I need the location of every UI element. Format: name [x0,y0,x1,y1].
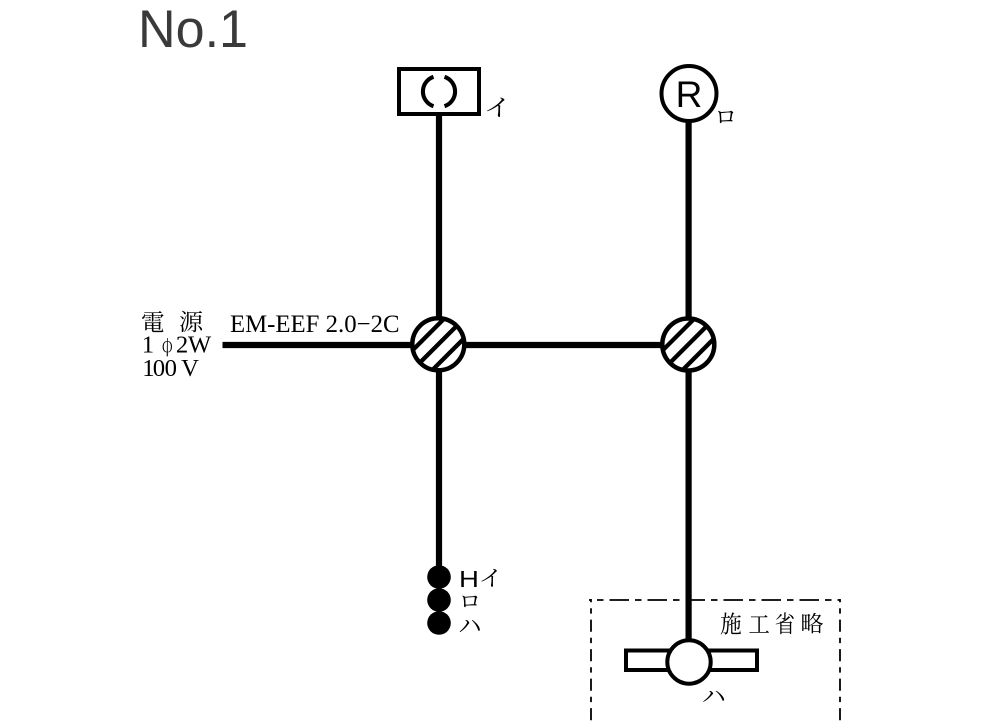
power source label 電源 [142,311,202,332]
label イ for ceiling light [487,98,504,117]
junction box J2 [650,306,726,382]
power source label 1φ2W [142,332,212,359]
switch H イ (position-lamp switch) [427,565,451,589]
lamp R (round lampholder) ロ [662,66,717,121]
wire: junction box J1 to junction box J2 [440,342,688,348]
wire: junction box J2 down to fluorescent lamp [685,345,691,662]
svg-text:H: H [459,566,479,592]
wire: junction box J1 down to switches [436,345,442,566]
label 施工省略 [721,612,823,634]
svg-text:R: R [676,74,703,115]
label ハ for switch [460,620,480,632]
wire: ceiling light to junction box J1 [436,112,442,345]
wire: power feed to junction box J1 [223,342,441,348]
label ロ for switch [462,596,477,608]
svg-text:No.1: No.1 [138,0,248,59]
wire: lamp R to junction box J2 [685,95,691,345]
switch ロ [427,588,451,612]
label ハ for fluorescent lamp [703,691,724,702]
label ロ for lamp R [718,111,733,123]
dashed box (construction omitted area) [589,599,840,723]
svg-text:EM-EEF 2.0−2C: EM-EEF 2.0−2C [230,311,400,338]
svg-text:100V: 100V [142,355,199,382]
fluorescent lamp ハ [626,640,757,683]
switch ハ [427,611,451,635]
label イ for switch [481,569,496,587]
junction box J1 [400,306,476,382]
ceiling light (hikkake ceiling rose) イ [399,69,479,114]
